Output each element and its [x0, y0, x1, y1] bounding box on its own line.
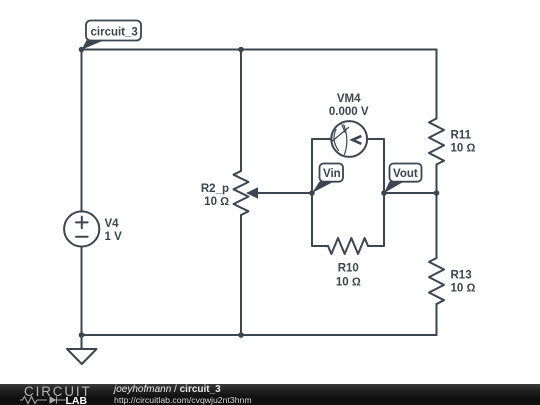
wire wiper to Vin node — [256, 192, 312, 194]
svg-text:R13: R13 — [451, 270, 472, 282]
svg-text:1 V: 1 V — [105, 231, 123, 243]
node junction top R2_p — [238, 47, 244, 53]
wire right column middle — [436, 165, 438, 259]
resistor R11 — [429, 119, 444, 165]
wire left column upper — [81, 50, 83, 212]
svg-text:10 Ω: 10 Ω — [451, 143, 476, 155]
svg-text:Vin: Vin — [323, 168, 341, 180]
node junction bottom R2_p — [238, 332, 244, 338]
wire voltmeter to Vout column — [367, 139, 384, 193]
node Vin — [309, 190, 315, 196]
voltmeter VM4 — [331, 121, 367, 157]
node junction right rail — [434, 190, 440, 196]
ground — [67, 335, 97, 364]
footer bar — [0, 384, 540, 405]
svg-text:10 Ω: 10 Ω — [451, 283, 476, 295]
wire R2_p column upper — [240, 50, 242, 172]
potentiometer R2_p — [234, 171, 249, 215]
wire Vout node to right rail — [384, 192, 437, 194]
flag circuit_3 — [82, 21, 142, 50]
svg-text:V4: V4 — [105, 218, 120, 230]
credit text — [114, 385, 252, 405]
CircuitLab logo — [0, 384, 100, 405]
svg-text:10 Ω: 10 Ω — [336, 277, 361, 289]
wire R10 right leg — [368, 193, 384, 246]
wire bottom rail — [82, 334, 437, 336]
wire right column bottom — [436, 304, 438, 335]
svg-text:R2_p: R2_p — [201, 183, 229, 195]
flag Vin — [312, 164, 343, 194]
node Vout — [381, 190, 387, 196]
wiper arrow of R2_p — [246, 187, 258, 198]
resistor R13 — [429, 258, 444, 304]
node junction bottom-left — [79, 332, 85, 338]
voltage source V4 — [64, 211, 99, 246]
wire Vin column up to voltmeter — [312, 139, 331, 193]
svg-text:R11: R11 — [451, 130, 472, 142]
svg-text:R10: R10 — [338, 263, 359, 275]
node junction top-left — [79, 47, 85, 53]
svg-text:0.000 V: 0.000 V — [329, 106, 369, 118]
wire R10 left leg — [312, 193, 328, 246]
wire right column top — [436, 50, 438, 119]
wire top rail — [82, 49, 437, 51]
svg-text:VM4: VM4 — [337, 93, 361, 105]
svg-text:LAB: LAB — [66, 395, 88, 405]
svg-text:Vout: Vout — [393, 168, 418, 180]
svg-text:circuit_3: circuit_3 — [91, 26, 138, 38]
svg-text:10 Ω: 10 Ω — [204, 196, 229, 208]
wire left column lower — [81, 247, 83, 335]
resistor R10 — [328, 238, 368, 254]
flag Vout — [384, 164, 422, 194]
wire R2_p column lower — [240, 215, 242, 335]
